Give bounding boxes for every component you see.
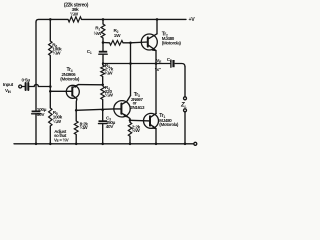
bottom 0V rail [14, 143, 194, 145]
wire left filtered rail [35, 22, 37, 110]
svg-text:0·5μ: 0·5μ [22, 78, 31, 83]
svg-text:½W: ½W [94, 30, 103, 36]
resistor R3 2.7k [102, 64, 104, 66]
wire Tr4 collector to Tr3 base [76, 109, 114, 110]
node input/R6 [49, 85, 52, 88]
svg-text:VE = ½V: VE = ½V [54, 137, 69, 143]
resistor R2 1W [103, 42, 110, 44]
transistor Tr3 2N697/2N1613 NPN driver [114, 96, 131, 121]
svg-text:+V: +V [189, 17, 196, 23]
resistor R5 100k [49, 91, 51, 108]
svg-text:50V: 50V [37, 112, 46, 117]
terminal bottom right [194, 142, 197, 145]
transistor Tr4 2N3906 PNP [50, 85, 102, 111]
resistor 39k (22k stereo) in rail [68, 17, 82, 22]
resistor 8.2k 1/4W [75, 110, 77, 121]
resistor R4 220 [101, 86, 105, 99]
svg-text:¼W: ¼W [80, 124, 89, 130]
resistor R1 1/2W [102, 19, 104, 24]
svg-text:(Motorola): (Motorola) [159, 122, 179, 127]
terminal ZL bottom [184, 109, 187, 112]
node R1 top [102, 18, 105, 21]
svg-text:(Motorola): (Motorola) [162, 40, 182, 45]
wire Tr2 base [131, 41, 148, 44]
node R6 top [49, 18, 52, 21]
resistor 2.2k 1/2W [129, 120, 131, 122]
node 100u bottom on rail [35, 143, 38, 146]
capacitor 0.5u coupling [22, 86, 25, 88]
svg-text:2N1613: 2N1613 [130, 105, 145, 110]
node base wire [49, 90, 52, 93]
wire Tr3 collector column [130, 43, 132, 96]
capacitor C1 [102, 43, 104, 51]
input terminal [19, 85, 22, 88]
svg-text:¼W: ¼W [105, 92, 114, 98]
wire top rail right segment [82, 18, 187, 20]
svg-text:¼W: ¼W [70, 11, 79, 17]
node X output [155, 62, 158, 65]
node R2/Tr2 base/Tr3 collector [129, 42, 132, 45]
svg-text:¼W: ¼W [105, 69, 114, 75]
transistor Tr1 MJ480 NPN lower output [144, 113, 159, 143]
node R1/R2/C1 [102, 41, 105, 44]
wire Tr1 base [130, 119, 150, 122]
capacitor C3 250u 40V [101, 109, 104, 112]
node Tr2 collector on rail [156, 18, 159, 21]
svg-text:(Motorola): (Motorola) [60, 76, 80, 81]
wire input to R6 node with hop [29, 84, 50, 86]
capacitor 100u 50V [32, 111, 41, 144]
wire mid horizontal to node X [103, 63, 156, 65]
capacitor C2 output [156, 63, 170, 65]
wire ZL to bottom rail [184, 112, 186, 144]
svg-text:¼W: ¼W [53, 118, 62, 124]
terminal ZL top [184, 97, 187, 100]
svg-text:Input: Input [3, 82, 14, 87]
svg-text:40V: 40V [106, 124, 115, 129]
node Tr3 emitter/Tr1 base/2.2k [129, 119, 132, 122]
transistor Tr2 MJ480 NPN upper output [141, 19, 157, 63]
wire output down [184, 67, 186, 97]
resistor R6 100k [49, 19, 51, 41]
svg-text:¼W: ¼W [53, 50, 62, 56]
wire node X down to Tr1 collector [155, 64, 157, 114]
wire top rail left segment [36, 19, 68, 22]
svg-text:½W: ½W [132, 127, 141, 133]
svg-text:1W: 1W [114, 33, 121, 38]
node Tr4 collector / 8.2k [75, 109, 78, 112]
node R3/R4/Tr4 emitter [101, 84, 104, 87]
